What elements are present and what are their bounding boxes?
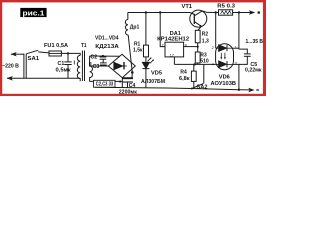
switch SA1 [26, 50, 38, 54]
transformer T1 primary winding I [77, 55, 80, 81]
node: output - terminal dash [256, 89, 259, 91]
diode bridge VD1-VD4 diamond [108, 54, 135, 77]
wire: R4 to bottom rail [193, 81, 195, 88]
svg-text:8: 8 [185, 43, 187, 47]
fuse FU1 [49, 51, 61, 56]
wire: top rail [128, 12, 191, 14]
optocoupler VD6 light arrows [220, 53, 222, 58]
resistor R5 [219, 10, 233, 15]
capacitor C1 [67, 53, 69, 62]
LED VD5 [142, 62, 149, 68]
svg-text:АОУ103В: АОУ103В [211, 81, 237, 87]
wire: DA1 riser to pin 2 [160, 13, 165, 47]
svg-text:3: 3 [235, 62, 237, 66]
svg-text:R2: R2 [202, 31, 208, 37]
transistor VT1 emitter with arrow [194, 22, 201, 27]
svg-text:C4: C4 [129, 83, 136, 89]
wire: secondary top to bridge top corner [90, 55, 120, 57]
node: DA1 rail junction dot [159, 11, 161, 13]
wire: secondary bottom lead to bridge bottom [90, 80, 122, 82]
wire: emitter to R2 [198, 26, 202, 30]
svg-text:R4: R4 [180, 70, 187, 76]
svg-text:VD5: VD5 [151, 70, 162, 76]
wire: R5 to output + [233, 12, 253, 14]
wire: adjust horizontal wire [174, 63, 215, 65]
wire: DA1 bottom pin 17 [173, 57, 175, 65]
node: C5 riser junction dot [238, 11, 240, 13]
svg-text:C2: C2 [90, 55, 97, 61]
transistor VT1 base bar [193, 14, 195, 24]
node: opto riser junction dot [215, 11, 217, 13]
svg-text:АЛ307БМ: АЛ307БМ [141, 79, 165, 85]
wire: opto bottom-right pin node to rail [234, 64, 239, 89]
svg-text:1...35 В: 1...35 В [246, 39, 264, 45]
node: C2 column junction dot [102, 55, 104, 57]
inductor Dr1 winding [125, 20, 128, 36]
red page frame [0, 0, 266, 96]
svg-text:1,5к: 1,5к [133, 48, 143, 54]
svg-text:C1: C1 [58, 61, 65, 67]
svg-text:1: 1 [235, 45, 237, 49]
svg-text:Др1: Др1 [130, 24, 140, 30]
svg-text:C2,C3 33: C2,C3 33 [96, 81, 113, 87]
svg-text:2: 2 [162, 43, 164, 47]
svg-text:КД213А: КД213А [95, 44, 119, 50]
svg-text:КР142ЕН12: КР142ЕН12 [157, 37, 189, 43]
node: mains connector plates X1 [23, 54, 25, 79]
wire: opto input riser [215, 13, 217, 49]
svg-text:510: 510 [200, 59, 209, 65]
svg-text:VD1...VD4: VD1...VD4 [95, 36, 119, 42]
LED VD5 emission arrows [148, 58, 152, 62]
resistor R2 [195, 30, 200, 43]
wire: C4 stem to bottom rail [127, 82, 129, 88]
optocoupler VD6 output diode [219, 61, 227, 67]
wire: bottom rail [95, 87, 251, 90]
wire: R4 top lead [193, 64, 195, 71]
node: bridge output junction dot [131, 71, 134, 74]
inductor Dr1 riser from top rail [127, 13, 129, 20]
node: output - arrow [248, 88, 254, 92]
svg-text:T1: T1 [81, 43, 87, 49]
transistor VT1 collector [194, 11, 207, 16]
optocoupler VD6 input LED [219, 45, 227, 51]
capacitor C3 [100, 62, 107, 64]
node: mains input arrow bottom [7, 76, 13, 81]
node: DA1 pin8 junction dot [197, 46, 199, 48]
transistor VT1 [190, 10, 207, 27]
wire: opto top-right pin to C5 riser [234, 47, 239, 49]
svg-text:R5 0.3: R5 0.3 [217, 4, 235, 10]
capacitor C2 [102, 55, 104, 58]
node: C1 junction dot [67, 52, 69, 54]
transistor VT1 base wire (rail into circle) [190, 13, 194, 15]
wire: FU1 to T1 primary [61, 53, 80, 55]
label callout box C2,C3 33 [94, 80, 116, 87]
svg-text:2: 2 [212, 46, 214, 50]
node: output + terminal dot [258, 11, 260, 13]
svg-text:1,3: 1,3 [202, 38, 209, 44]
svg-text:R1: R1 [134, 41, 140, 47]
node: mains input arrow top [11, 52, 17, 56]
resistor R3 [195, 52, 200, 63]
wire: R1 to VD5 [145, 57, 147, 63]
svg-text:4: 4 [212, 63, 214, 67]
wire: Dr1 down to bridge + node [128, 35, 132, 73]
wire: SA1 to FU1 [38, 52, 49, 53]
svg-text:0,22мк: 0,22мк [245, 67, 262, 73]
svg-text:6,8к: 6,8к [179, 76, 190, 82]
svg-text:+: + [119, 80, 122, 86]
wire: DA1 pin 8 to R2/R3 junction [184, 46, 198, 48]
wire: R1 riser [145, 13, 147, 46]
node: SA2 pivot dot [191, 88, 193, 90]
svg-text:VT1: VT1 [182, 4, 193, 10]
node: output + arrow [249, 10, 255, 14]
svg-text:SA2: SA2 [197, 84, 208, 90]
transformer T1 core [81, 51, 83, 82]
title box рис.1 [20, 8, 46, 17]
capacitor C5 branch [239, 49, 247, 54]
capacitor C4 bottom plate [122, 81, 133, 83]
node: R4 junction dot [193, 63, 195, 65]
node: R1 rail junction dot [145, 11, 147, 13]
svg-text:I: I [74, 60, 76, 66]
wire: secondary mid wire to bridge left corner [90, 65, 109, 67]
switch SA2 lever [192, 83, 204, 88]
svg-text:0,5мк: 0,5мк [56, 68, 71, 74]
wire: bridge bottom corner to rail [121, 78, 123, 88]
svg-text:R3: R3 [200, 52, 206, 58]
wire: R2 to R3 [197, 43, 199, 52]
switch SA2 riser from adjust wire [203, 64, 205, 83]
wire: R3 to adj wire [197, 63, 199, 64]
svg-text:VD6: VD6 [219, 74, 230, 80]
op-amp DA1 regulator box [165, 42, 184, 57]
svg-text:C3: C3 [93, 64, 100, 70]
capacitor C4 (electrolytic) top plate [122, 77, 133, 79]
svg-text:SA1: SA1 [28, 56, 40, 62]
svg-text:FU1 0,5A: FU1 0,5A [44, 43, 68, 49]
wire: junction to C4 plate [131, 72, 133, 77]
node: rail junction dot bottom right [238, 89, 240, 91]
svg-text:~220 В: ~220 В [2, 64, 19, 70]
wire: bottom mains input wire [7, 77, 80, 79]
resistor R5 internal hatching [221, 11, 232, 14]
wire: VT1 emitter output wire to R5 [207, 11, 219, 13]
wire: top mains input wire [11, 53, 24, 55]
svg-text:рис.1: рис.1 [23, 8, 45, 17]
svg-text:17: 17 [170, 53, 174, 57]
transformer T1 secondary winding II [90, 56, 93, 82]
diode symbol inside bridge [114, 62, 123, 69]
resistor R4 [191, 71, 196, 81]
wire: C5 riser upper [238, 13, 240, 50]
optocoupler VD6 capsule [216, 44, 234, 70]
resistor R1 [144, 45, 149, 57]
